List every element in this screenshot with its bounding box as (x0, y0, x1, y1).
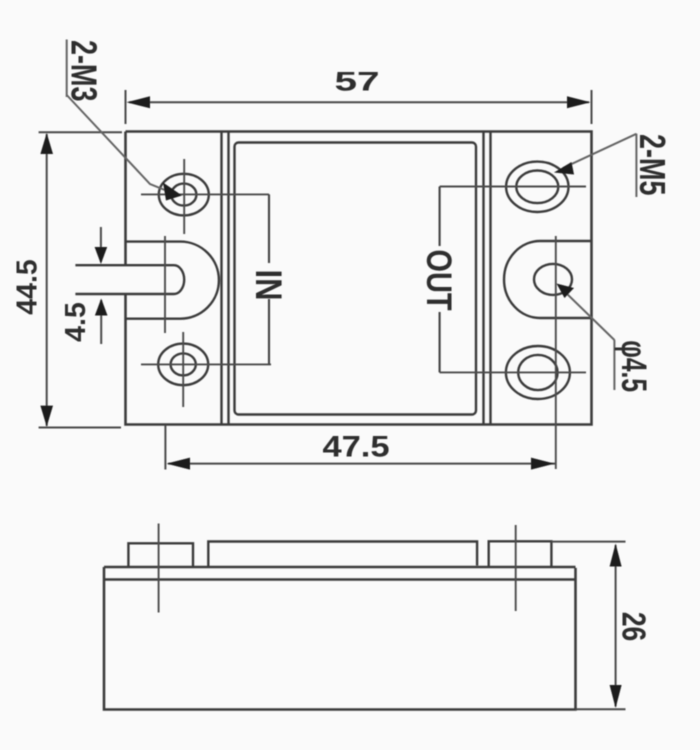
dim 57 line (129, 101, 589, 103)
dim 26 down arrow (610, 685, 622, 708)
dim 47.5 left arrow (167, 458, 191, 470)
OUT bracket line (439, 187, 441, 373)
dim 26 top extension (551, 541, 625, 543)
terminal circle bottom-right crosshair (440, 371, 586, 373)
right tab divider line (482, 132, 484, 425)
body outline top view (126, 132, 592, 425)
svg-text:2-M3: 2-M3 (63, 40, 104, 101)
side view left screw centerline (158, 524, 160, 613)
dim 4.5 lower arrow line (100, 300, 102, 344)
dim 44.5 top extension (39, 131, 122, 133)
label phi4.5 leader (563, 290, 614, 340)
dim 26 up arrow (610, 544, 622, 567)
label 2-M5 leader (563, 134, 636, 168)
terminal circle top-right inner (516, 171, 558, 204)
side view baseplate top line (104, 566, 576, 568)
svg-text:4.5: 4.5 (60, 302, 92, 342)
svg-text:2-M5: 2-M5 (632, 134, 673, 195)
hole top-left horizontal crosshair (141, 193, 269, 195)
label 2-M3 underline (66, 40, 68, 98)
hole phi4.5 (534, 264, 572, 295)
dim 57 left extension (125, 90, 127, 124)
dim 47.5 left extension (164, 425, 166, 470)
label phi4.5 arrowhead (557, 284, 575, 299)
left tab divider line (220, 132, 222, 425)
dim 57 right arrow (567, 96, 591, 108)
terminal circle top-right outer (506, 162, 568, 212)
phi4.5 centerline (555, 236, 557, 469)
dim 44.5 line (46, 134, 48, 426)
hole bottom-left vertical crosshair (182, 332, 184, 407)
terminal circle top-right crosshair (440, 186, 586, 188)
U-shaped mounting ear (126, 242, 219, 319)
side view middle plateau (208, 542, 477, 567)
side view baseplate lower line (104, 578, 576, 580)
hole top-left outer (159, 174, 209, 216)
side view left terminal block (128, 543, 193, 567)
hole top-left vertical crosshair (183, 159, 185, 234)
label 2-M3 arrowhead (163, 183, 182, 201)
label 2-M5 underline (635, 134, 637, 197)
svg-text:26: 26 (615, 612, 652, 641)
svg-text:OUT: OUT (419, 249, 458, 311)
side view right terminal block (489, 541, 552, 568)
svg-text:φ4.5: φ4.5 (614, 340, 652, 392)
slot centerline (164, 236, 166, 333)
inner rectangle (top face) (235, 143, 477, 415)
dim 26 bottom extension (576, 708, 626, 710)
terminal circle bottom-right outer (506, 346, 570, 399)
side view body outline (104, 567, 576, 710)
dim 57 right extension (591, 90, 593, 124)
dim 57 left arrow (127, 96, 151, 108)
dim 44.5 down arrow (40, 406, 53, 427)
label 2-M5 arrowhead (554, 162, 574, 175)
svg-text:IN: IN (247, 269, 288, 300)
IN bracket line (268, 194, 270, 364)
hole bottom-left inner (171, 353, 196, 375)
dim 26 line (615, 545, 617, 707)
dim 47.5 right arrow (531, 458, 555, 470)
svg-text:47.5: 47.5 (322, 430, 389, 463)
side view right screw centerline (515, 525, 517, 611)
right tab divider line 2 (489, 132, 491, 425)
label phi4.5 underline (613, 340, 615, 390)
mounting slot (75, 265, 184, 294)
hole bottom-left horizontal crosshair (141, 363, 271, 365)
dim 44.5 up arrow (40, 133, 53, 154)
terminal circle bottom-right inner (518, 355, 557, 390)
D-shaped ear right (504, 241, 591, 318)
hole bottom-left outer (158, 344, 208, 386)
svg-text:57: 57 (334, 67, 379, 97)
svg-text:44.5: 44.5 (12, 259, 44, 315)
dim 47.5 line (168, 463, 556, 465)
dim 4.5 up arrow (95, 299, 108, 316)
hole top-left inner (171, 184, 196, 206)
left tab divider line 2 (227, 132, 229, 425)
dim 44.5 bottom extension (39, 427, 121, 429)
dim 4.5 down arrow (95, 247, 108, 264)
dim 4.5 upper arrow line (100, 227, 102, 262)
label 2-M3 leader (67, 95, 176, 195)
